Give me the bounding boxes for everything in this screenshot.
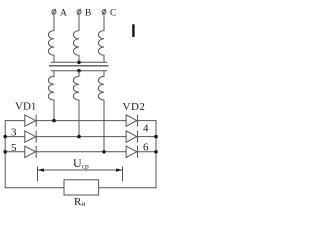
- Ucp right arrowhead: [116, 168, 122, 172]
- primary winding phase A: [48, 14, 54, 63]
- junction node row2 phase B: [77, 135, 81, 139]
- diode VD2-6: [126, 146, 137, 158]
- svg-text:VD1: VD1: [15, 101, 36, 113]
- bottom load wire: [5, 187, 156, 189]
- secondary star bus wire: [51, 70, 107, 72]
- transformer core: [49, 65, 109, 67]
- svg-text:C: C: [110, 9, 116, 19]
- secondary winding phase c: [98, 71, 104, 152]
- Ucp left tick: [37, 166, 39, 181]
- junction dot primary neutral: [77, 61, 81, 65]
- junction node left bus row2: [3, 135, 7, 139]
- primary star bus wire: [51, 61, 107, 63]
- terminal A: [52, 9, 56, 15]
- svg-text:VD2: VD2: [123, 101, 146, 113]
- primary winding phase B: [73, 14, 79, 63]
- junction dot secondary neutral: [77, 69, 81, 73]
- row 2 wire (phase b to rectifier): [5, 136, 156, 138]
- svg-text:B: B: [85, 9, 91, 19]
- secondary winding phase a: [48, 71, 54, 121]
- row 1 wire (phase a to rectifier): [5, 120, 156, 122]
- junction node right bus row3: [154, 150, 158, 154]
- terminal B: [77, 9, 81, 15]
- primary winding phase C: [98, 14, 104, 63]
- svg-text:4: 4: [143, 123, 149, 135]
- label I primary winding: [132, 24, 134, 37]
- Ucp left arrowhead: [38, 168, 44, 172]
- Ucp dimension line: [38, 169, 123, 171]
- svg-text:3: 3: [11, 127, 17, 139]
- row 3 wire (phase c to rectifier): [5, 151, 156, 153]
- terminal C: [102, 9, 106, 15]
- junction node left bus row3: [3, 150, 7, 154]
- diode VD2-4: [126, 131, 137, 143]
- junction node row1 phase A: [52, 119, 56, 123]
- svg-text:Rн: Rн: [74, 196, 85, 208]
- diode VD1-1: [25, 115, 36, 127]
- svg-text:5: 5: [11, 142, 17, 154]
- diode VD2-2: [126, 115, 137, 127]
- left cathode bus wire: [4, 120, 6, 188]
- diode VD1-3: [25, 131, 36, 143]
- right anode bus wire: [155, 120, 157, 188]
- Ucp right tick: [122, 166, 124, 181]
- junction node row3 phase C: [102, 150, 106, 154]
- svg-text:6: 6: [143, 142, 149, 154]
- diode VD1-5: [25, 146, 36, 158]
- junction node right bus row2: [154, 135, 158, 139]
- secondary winding phase b: [73, 71, 79, 137]
- svg-text:A: A: [60, 9, 67, 19]
- svg-text:Uср: Uср: [73, 156, 89, 170]
- resistor Rn load: [64, 180, 99, 195]
